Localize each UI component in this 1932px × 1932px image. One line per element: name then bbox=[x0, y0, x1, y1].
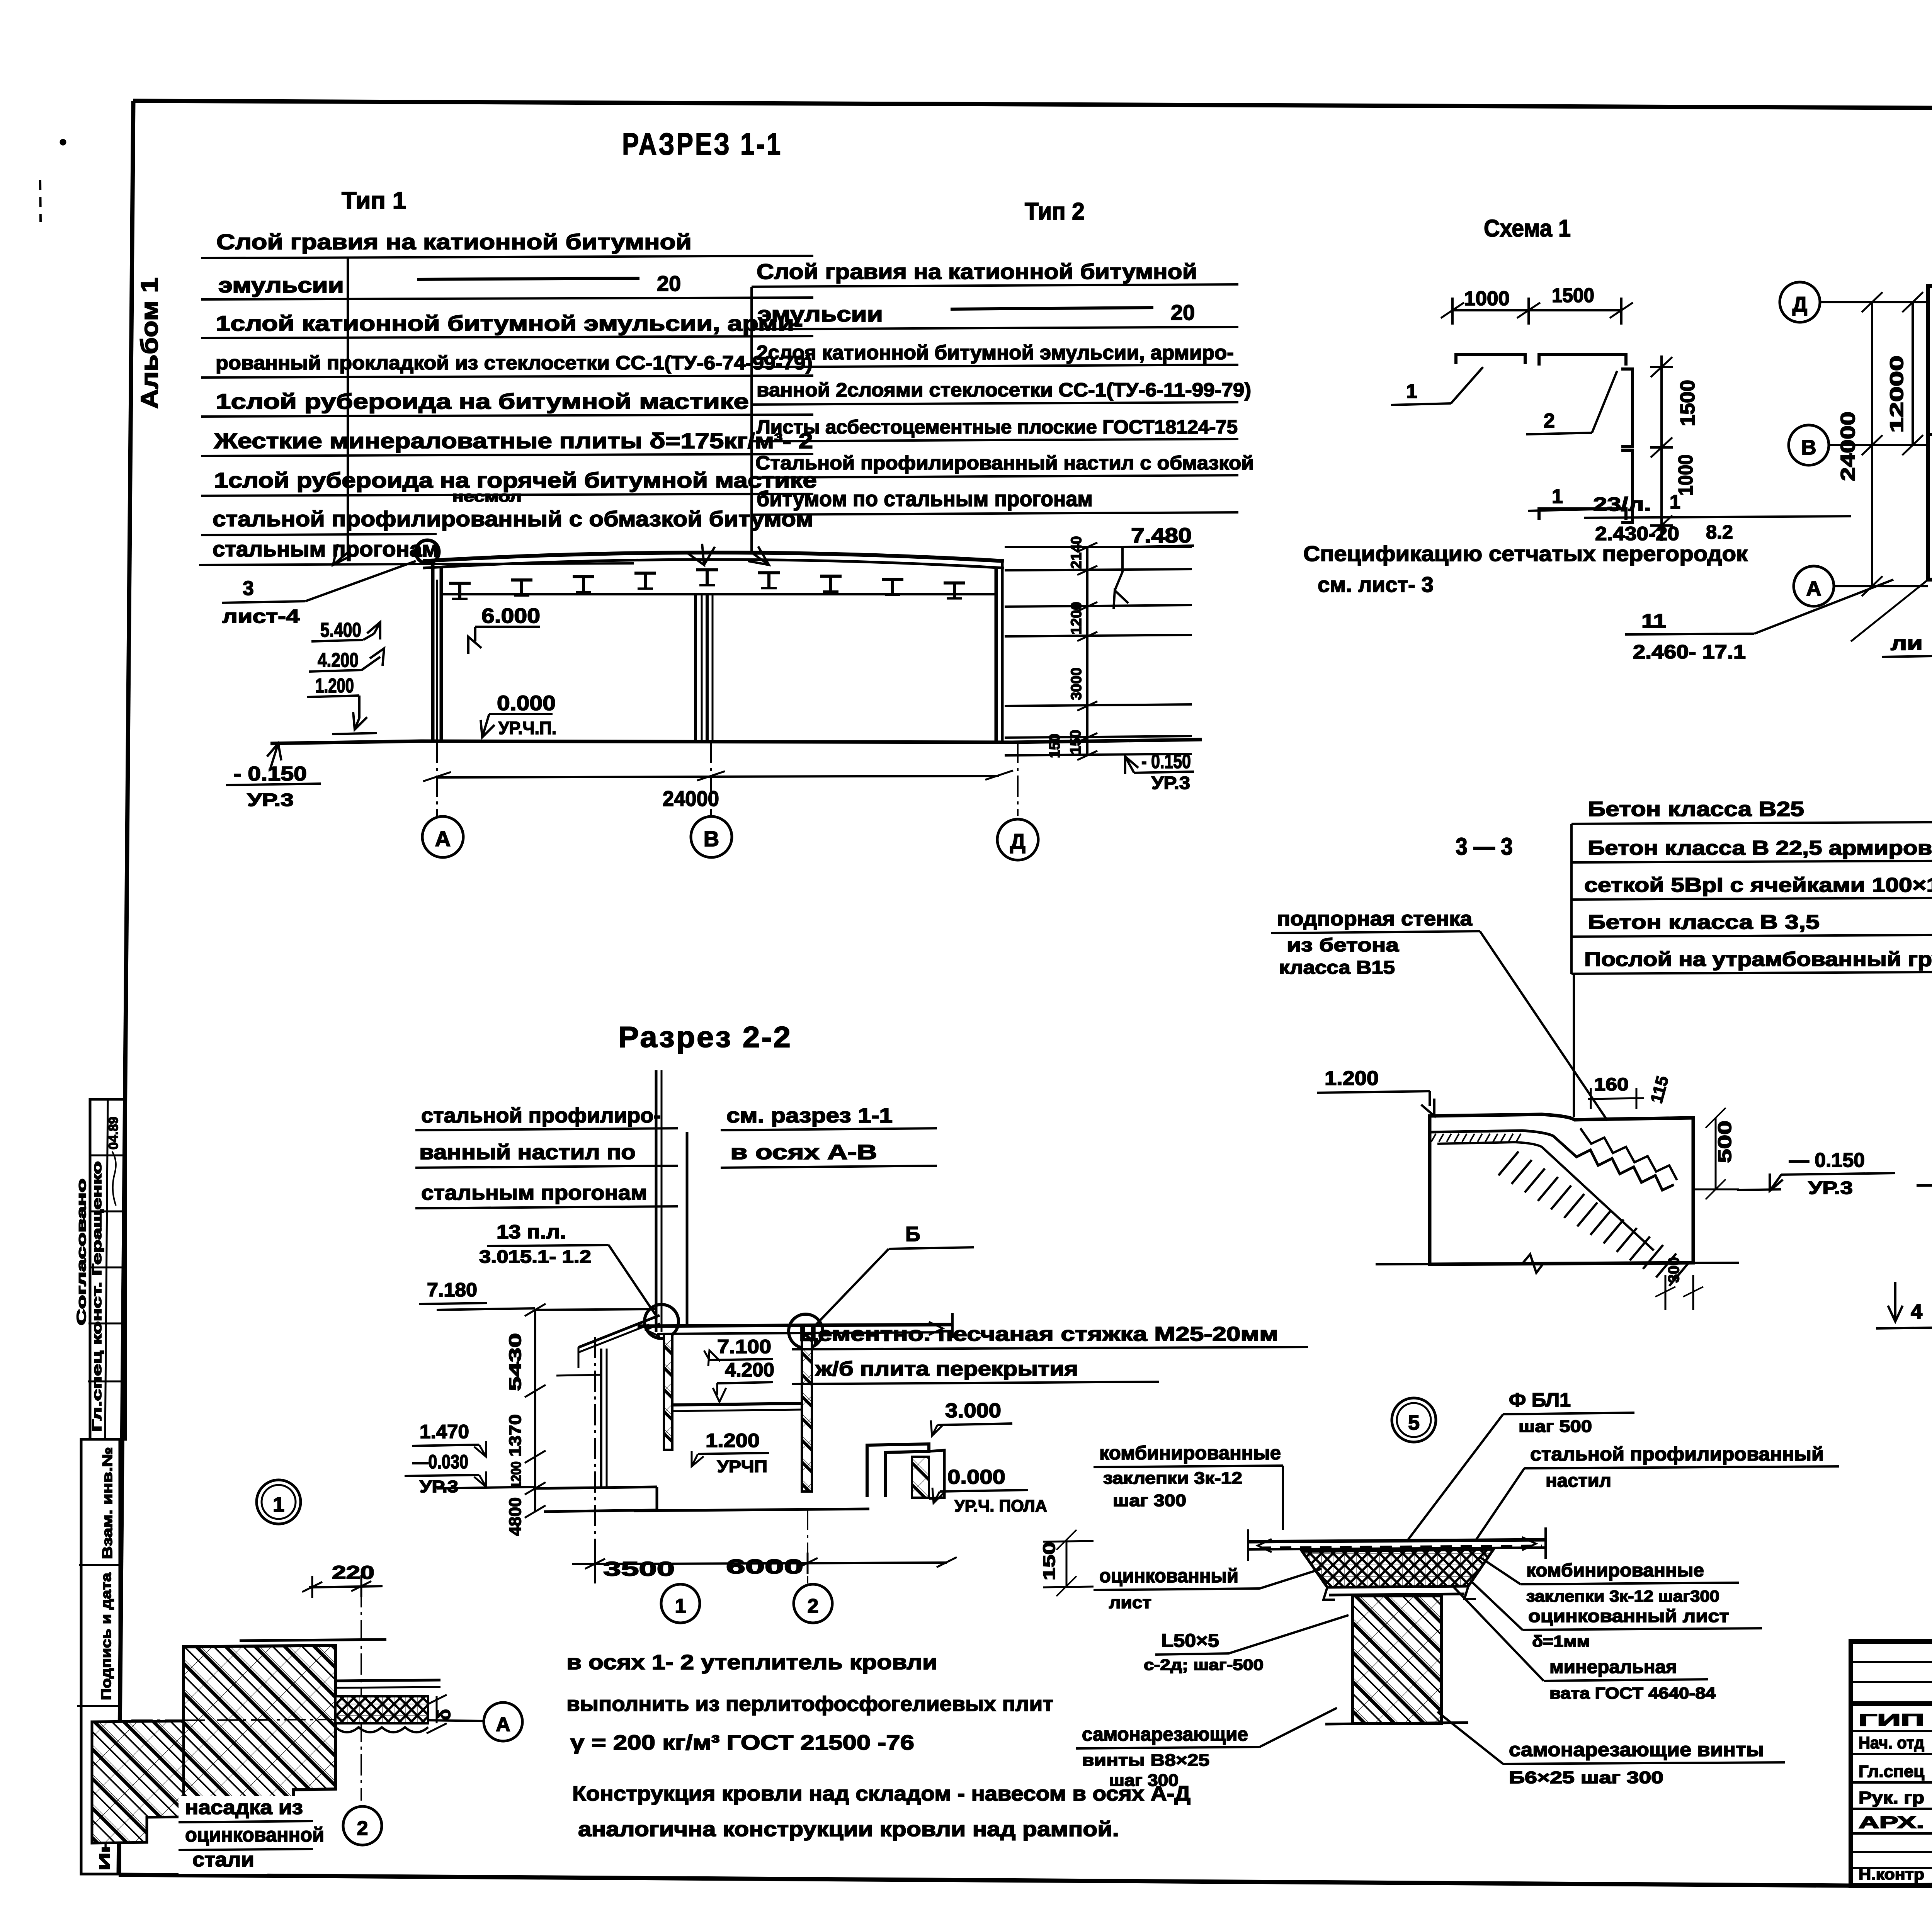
svg-text:12000: 12000 bbox=[1887, 355, 1907, 433]
svg-text:220: 220 bbox=[332, 1563, 374, 1583]
svg-text:см. разрез 1-1: см. разрез 1-1 bbox=[726, 1104, 893, 1127]
svg-text:лист-4: лист-4 bbox=[222, 605, 299, 627]
title block row ГИП bbox=[1851, 1704, 1932, 1706]
svg-text:1000: 1000 bbox=[1675, 454, 1697, 496]
svg-text:Ф БЛ1: Ф БЛ1 bbox=[1509, 1389, 1571, 1411]
section 1-1 left wall bbox=[431, 561, 435, 742]
svg-text:23/л.: 23/л. bbox=[1593, 493, 1651, 515]
svg-text:7.100: 7.100 bbox=[717, 1336, 771, 1357]
план vertical dim 24000 bbox=[1871, 302, 1873, 586]
title block row blank bbox=[1851, 1832, 1932, 1835]
svg-text:2: 2 bbox=[357, 1817, 368, 1840]
svg-text:самонарезающие: самонарезающие bbox=[1082, 1723, 1248, 1745]
svg-text:1: 1 bbox=[1406, 380, 1417, 403]
svg-text:В: В bbox=[1801, 436, 1816, 459]
2-2 tall mast vertical lines bbox=[655, 1070, 658, 1332]
detail mark 5 double circle bbox=[1392, 1398, 1436, 1442]
3-3 second step zigzag bbox=[1580, 1128, 1677, 1180]
svg-text:1500: 1500 bbox=[1552, 284, 1594, 307]
план axis circle Д bbox=[1780, 282, 1820, 322]
svg-text:выполнить из перлитофосфогели: выполнить из перлитофосфогелиевых плит bbox=[566, 1692, 1053, 1716]
svg-text:стальным прогонам: стальным прогонам bbox=[421, 1181, 647, 1204]
2-2 dim chain far left bbox=[534, 1310, 536, 1512]
Тип2 leader arrows to roof bbox=[752, 553, 769, 565]
detail5 capital edge angles bbox=[1323, 1587, 1335, 1600]
svg-text:1.200: 1.200 bbox=[706, 1430, 760, 1451]
svg-text:Рук. гр: Рук. гр bbox=[1859, 1788, 1924, 1807]
svg-text:Б: Б bbox=[905, 1223, 920, 1246]
svg-text:стальным прогонам: стальным прогонам bbox=[213, 537, 439, 561]
detail1 top slab line bbox=[240, 1639, 386, 1641]
svg-text:в осях 1- 2 утеплитель кр: в осях 1- 2 утеплитель кровли bbox=[566, 1651, 937, 1674]
2-2 axis circle 2 bbox=[794, 1584, 832, 1623]
3-3 step hatching marks top bbox=[1431, 1134, 1436, 1142]
svg-text:Согласовано: Согласовано bbox=[74, 1179, 88, 1325]
svg-text:Нач. отд: Нач. отд bbox=[1859, 1733, 1924, 1752]
title block row Н.контр bbox=[1851, 1867, 1932, 1869]
svg-text:6.000: 6.000 bbox=[481, 604, 540, 628]
section 1-1 right wall bbox=[995, 568, 998, 742]
svg-text:Б6×25 шаг 300: Б6×25 шаг 300 bbox=[1509, 1768, 1663, 1787]
svg-text:— 0.150: — 0.150 bbox=[1789, 1149, 1865, 1172]
svg-text:УРЧП: УРЧП bbox=[717, 1457, 767, 1476]
detail mark 1 double circle bbox=[257, 1480, 301, 1524]
svg-text:γ = 200 кг/м³ ГОСТ 21500 -: γ = 200 кг/м³ ГОСТ 21500 -76 bbox=[570, 1731, 914, 1754]
svg-text:УР.3: УР.3 bbox=[247, 790, 294, 810]
detail1 dim 8 right bbox=[436, 1696, 438, 1723]
svg-text:класса В15: класса В15 bbox=[1279, 957, 1395, 978]
roof plan mid horizontal bbox=[1928, 433, 1932, 436]
3-3 break line bottom bbox=[1376, 1254, 1739, 1273]
svg-text:стальной профилиро-: стальной профилиро- bbox=[421, 1104, 661, 1127]
svg-text:4.200: 4.200 bbox=[318, 649, 359, 672]
svg-text:битумом по стальным прогон: битумом по стальным прогонам bbox=[757, 486, 1093, 511]
svg-text:2.460- 17.1: 2.460- 17.1 bbox=[1633, 641, 1746, 663]
axis circle А bbox=[422, 816, 463, 857]
svg-text:РАЗРЕЗ 1-1: РАЗРЕЗ 1-1 bbox=[622, 127, 782, 161]
section 1-1 roof purlins (T marks) bbox=[449, 583, 471, 599]
section 1-1 roof slab bbox=[423, 553, 1004, 561]
svg-text:аналогична конструкции кров: аналогична конструкции кровли над рампой… bbox=[578, 1818, 1119, 1841]
svg-text:ванный настил по: ванный настил по bbox=[419, 1141, 636, 1164]
detail5 dim 150 left bbox=[1066, 1540, 1068, 1586]
svg-text:7.480: 7.480 bbox=[1131, 524, 1192, 547]
svg-text:лист: лист bbox=[1109, 1593, 1151, 1612]
svg-text:13 п.л.: 13 п.л. bbox=[497, 1221, 566, 1243]
svg-text:4800: 4800 bbox=[506, 1497, 525, 1536]
title block row Нач. отд bbox=[1851, 1730, 1932, 1732]
2-2 bottom dim 3500 / 6000 bbox=[572, 1563, 947, 1564]
svg-text:5430: 5430 bbox=[506, 1333, 525, 1391]
svg-text:2: 2 bbox=[808, 1595, 819, 1617]
svg-text:L50×5: L50×5 bbox=[1161, 1631, 1219, 1651]
svg-text:Схема 1: Схема 1 bbox=[1484, 215, 1571, 242]
2-2 left thin column bbox=[600, 1349, 602, 1488]
svg-text:- 0.150: - 0.150 bbox=[1141, 750, 1191, 773]
svg-text:Спецификацию сетчатых перег: Спецификацию сетчатых перегородок bbox=[1303, 541, 1748, 566]
sheet frame top border bbox=[133, 101, 1932, 111]
2-2 deck end ticks bbox=[951, 1313, 954, 1338]
svg-text:Бетон класса В25: Бетон класса В25 bbox=[1588, 798, 1804, 821]
svg-text:Разрез 2-2: Разрез 2-2 bbox=[618, 1021, 792, 1054]
svg-text:УР.3: УР.3 bbox=[1151, 773, 1190, 793]
svg-text:эмульсии: эмульсии bbox=[757, 302, 883, 326]
dim line 24000 bbox=[437, 776, 999, 777]
svg-text:А: А bbox=[496, 1713, 510, 1736]
svg-text:см. лист- 3: см. лист- 3 bbox=[1318, 572, 1434, 597]
svg-text:4.200: 4.200 bbox=[725, 1359, 774, 1381]
svg-text:20: 20 bbox=[1171, 300, 1195, 325]
detail1 axis circle 2 below bbox=[343, 1806, 382, 1845]
svg-text:1.200: 1.200 bbox=[315, 675, 354, 697]
svg-text:эмульсии: эмульсии bbox=[218, 273, 344, 297]
svg-text:24000: 24000 bbox=[1837, 412, 1859, 481]
svg-text:Гл.спец конст. Геращенко: Гл.спец конст. Геращенко bbox=[90, 1161, 104, 1432]
svg-text:0.000: 0.000 bbox=[947, 1466, 1005, 1488]
svg-text:рованный прокладкой из стекл: рованный прокладкой из стеклосетки СС-1(… bbox=[216, 352, 813, 374]
svg-text:1: 1 bbox=[1552, 485, 1563, 508]
svg-text:3.015.1- 1.2: 3.015.1- 1.2 bbox=[479, 1247, 591, 1267]
svg-text:—0.030: —0.030 bbox=[412, 1451, 468, 1473]
svg-text:А: А bbox=[1806, 577, 1821, 600]
2-2 rampa beam hatch bbox=[912, 1457, 929, 1498]
svg-text:В: В bbox=[704, 827, 719, 851]
axis circle В bbox=[691, 816, 732, 857]
label насадка из оцинкованной стали (white underlay) bbox=[179, 1796, 314, 1824]
svg-text:ли: ли bbox=[1891, 632, 1923, 655]
detail5 deck end ticks bbox=[1247, 1529, 1249, 1561]
svg-text:04.89: 04.89 bbox=[106, 1117, 121, 1150]
title block row Гл.спец bbox=[1851, 1753, 1932, 1755]
svg-text:подпорная стенка: подпорная стенка bbox=[1277, 908, 1473, 930]
svg-text:150: 150 bbox=[1040, 1542, 1059, 1580]
svg-text:Альбом 1: Альбом 1 bbox=[136, 277, 163, 409]
svg-text:ГИП: ГИП bbox=[1859, 1711, 1924, 1730]
roof plan outer rectangle bbox=[1928, 286, 1932, 580]
svg-text:300: 300 bbox=[1665, 1257, 1682, 1283]
svg-text:3.000: 3.000 bbox=[945, 1400, 1001, 1422]
svg-text:1500: 1500 bbox=[1677, 380, 1699, 426]
svg-text:150: 150 bbox=[1047, 734, 1063, 758]
detail5 column base line bbox=[1325, 1723, 1468, 1724]
right vertical dim line bbox=[1086, 547, 1088, 755]
detail1 centerline bbox=[361, 1586, 362, 1801]
svg-text:Подпись и дата: Подпись и дата bbox=[98, 1572, 114, 1700]
svg-text:стали: стали bbox=[192, 1849, 254, 1871]
leader from ли box to plan corner bbox=[1851, 580, 1928, 641]
3-3 wall inner steps bbox=[1430, 1131, 1674, 1190]
схема1 bottom channel bracket bbox=[1539, 509, 1626, 520]
svg-text:Конструкция кровли над скл: Конструкция кровли над складом - навесом… bbox=[572, 1782, 1190, 1805]
2-2 ground steps left bbox=[533, 1487, 657, 1488]
svg-text:заклепки 3к-12 шаг300: заклепки 3к-12 шаг300 bbox=[1526, 1587, 1719, 1605]
3-3 dim 500 right bbox=[1715, 1118, 1717, 1189]
svg-text:6000: 6000 bbox=[726, 1556, 803, 1578]
svg-text:заклепки 3к-12: заклепки 3к-12 bbox=[1103, 1469, 1242, 1488]
svg-text:Цементно. песчаная стяжка М2: Цементно. песчаная стяжка М25-20мм bbox=[799, 1323, 1278, 1345]
svg-text:11: 11 bbox=[1641, 610, 1666, 632]
2-2 left hatched column bbox=[664, 1334, 672, 1450]
svg-text:оцинкованный лист: оцинкованный лист bbox=[1528, 1606, 1729, 1626]
Тип1 leader bracket vertical bbox=[347, 258, 349, 553]
axis dashdot below section bbox=[436, 742, 438, 816]
svg-text:А: А bbox=[435, 827, 451, 851]
svg-text:Бетон класса В 22,5 арм: Бетон класса В 22,5 армированный bbox=[1588, 837, 1932, 859]
title block row Рук. гр bbox=[1851, 1781, 1932, 1784]
section 1-1 ceiling line bbox=[441, 593, 996, 595]
detail5 cross-hatched capital bbox=[1302, 1549, 1493, 1587]
svg-text:оцинкованный: оцинкованный bbox=[1099, 1565, 1238, 1587]
svg-text:150: 150 bbox=[1068, 730, 1084, 754]
svg-text:5: 5 bbox=[1408, 1411, 1420, 1434]
svg-text:Тип 1: Тип 1 bbox=[342, 187, 406, 214]
svg-text:3 — 3: 3 — 3 bbox=[1456, 833, 1513, 860]
svg-text:вата ГОСТ 4640-84: вата ГОСТ 4640-84 bbox=[1549, 1684, 1716, 1702]
svg-text:самонарезающие винты: самонарезающие винты bbox=[1509, 1739, 1764, 1760]
svg-text:2.430-20: 2.430-20 bbox=[1595, 523, 1679, 544]
svg-text:АРХ.: АРХ. bbox=[1859, 1813, 1924, 1832]
2-2 door frame lines bbox=[578, 1347, 580, 1368]
left stamp strip outer box upper (two columns) bbox=[90, 1099, 126, 1439]
svg-text:4: 4 bbox=[1911, 1300, 1922, 1323]
detail5 deck top line bbox=[1248, 1540, 1546, 1542]
title block row АРХ. bbox=[1851, 1808, 1932, 1810]
axis circle Д bbox=[997, 819, 1038, 860]
3-3 spec left border + leader down bbox=[1570, 824, 1573, 974]
svg-text:Послой на утрамбованный г: Послой на утрамбованный грунт bbox=[1584, 948, 1932, 971]
svg-text:в осях А-В: в осях А-В bbox=[730, 1141, 877, 1164]
svg-text:1370: 1370 bbox=[506, 1414, 525, 1457]
sheet frame left border bbox=[119, 101, 133, 1875]
svg-text:Слой гравия на катионной: Слой гравия на катионной битумной bbox=[757, 259, 1197, 284]
svg-text:δ=1мм: δ=1мм bbox=[1532, 1632, 1590, 1650]
2-2 axis circle 1 bbox=[661, 1584, 700, 1623]
section 1-1 gutter circle left bbox=[416, 540, 439, 563]
svg-text:2140: 2140 bbox=[1068, 536, 1085, 569]
Тип1 leader arrow to roof bbox=[333, 553, 348, 565]
svg-text:Бетон класса В 3,5: Бетон класса В 3,5 bbox=[1588, 911, 1820, 934]
detail1 axis circle Я bbox=[484, 1702, 522, 1741]
svg-text:2слоя катионной битумной эм: 2слоя катионной битумной эмульсии, армир… bbox=[757, 342, 1234, 364]
stamp box Подпись и дата bbox=[77, 1705, 119, 1707]
svg-text:1000: 1000 bbox=[1464, 287, 1510, 310]
2-2 foundation block below bbox=[634, 1509, 869, 1511]
2-2 rampa edge beam right bbox=[867, 1444, 929, 1497]
svg-text:1.470: 1.470 bbox=[420, 1421, 469, 1442]
svg-text:115: 115 bbox=[1647, 1074, 1672, 1105]
2-2 right hatched column bbox=[802, 1334, 812, 1492]
svg-text:из бетона: из бетона bbox=[1287, 935, 1399, 956]
схема1 vertical channel column bbox=[1621, 369, 1633, 446]
svg-text:оцинкованной: оцинкованной bbox=[185, 1824, 324, 1846]
схема1 channel bracket top-right bbox=[1539, 355, 1626, 366]
svg-text:1: 1 bbox=[273, 1493, 284, 1516]
3-3 retaining wall drawing bbox=[1430, 1114, 1693, 1264]
svg-text:500: 500 bbox=[1715, 1121, 1735, 1163]
title block thin top rows bbox=[1851, 1661, 1932, 1663]
2-2 middle floor line bbox=[672, 1403, 802, 1405]
svg-text:комбинированные: комбинированные bbox=[1526, 1560, 1704, 1581]
detail1 insulation strip bbox=[335, 1696, 428, 1723]
svg-text:Тип 2: Тип 2 bbox=[1025, 198, 1085, 225]
svg-text:8.2: 8.2 bbox=[1706, 521, 1733, 543]
svg-text:винты В8×25: винты В8×25 bbox=[1082, 1751, 1209, 1770]
svg-text:0.000: 0.000 bbox=[497, 692, 556, 715]
svg-text:1слой катионной битумной эм: 1слой катионной битумной эмульсии, арми- bbox=[216, 311, 803, 335]
stamp box Взам. инв. № bbox=[79, 1564, 120, 1566]
svg-text:шаг 500: шаг 500 bbox=[1519, 1417, 1592, 1436]
small dot top-left bbox=[60, 139, 66, 145]
svg-text:Жесткие минераловатные плиты: Жесткие минераловатные плиты δ=175кг/м³-… bbox=[214, 429, 813, 453]
svg-text:с-2д; шаг-500: с-2д; шаг-500 bbox=[1144, 1656, 1264, 1673]
svg-text:УР.Ч.П.: УР.Ч.П. bbox=[498, 718, 556, 738]
5-5 wall top line bbox=[1917, 1184, 1932, 1185]
detail1 hatched wall corner bbox=[184, 1645, 335, 1817]
stamp strip signature squiggle bbox=[112, 1151, 116, 1206]
svg-text:УР.3: УР.3 bbox=[1808, 1178, 1853, 1198]
схема1 right vertical dim bbox=[1660, 355, 1663, 541]
title block row blank bbox=[1851, 1851, 1932, 1853]
detail1 lower-left hatched block bbox=[92, 1721, 184, 1843]
svg-text:3: 3 bbox=[243, 577, 254, 600]
2-2 node circle left bbox=[645, 1304, 679, 1338]
svg-text:несмол: несмол bbox=[452, 489, 522, 505]
svg-text:20: 20 bbox=[657, 271, 681, 296]
stamp strip lower group box bbox=[81, 1439, 120, 1874]
stamp strip row lines upper bbox=[90, 1155, 125, 1156]
svg-text:160: 160 bbox=[1594, 1074, 1629, 1094]
2-2 node circle right bbox=[789, 1314, 823, 1348]
план axis circle В bbox=[1789, 425, 1829, 465]
svg-text:Листы асбестоцементные плоск: Листы асбестоцементные плоские ГОСТ18124… bbox=[757, 416, 1238, 438]
Тип2 leader bracket vertical bbox=[750, 287, 753, 553]
title block outline bbox=[1851, 1641, 1932, 1886]
svg-text:Д: Д bbox=[1010, 829, 1026, 854]
right elevation ladder lines bbox=[1005, 546, 1192, 548]
3-3 hatch on slope bbox=[1498, 1151, 1519, 1175]
svg-text:стальной профилированный: стальной профилированный bbox=[1530, 1443, 1824, 1465]
svg-text:2: 2 bbox=[1544, 410, 1555, 432]
svg-text:комбинированные: комбинированные bbox=[1099, 1442, 1281, 1464]
2-2 roof deck line bbox=[638, 1325, 952, 1326]
5-5 section arrows 4 bbox=[1894, 1282, 1896, 1321]
svg-text:1слой рубероида на битумной: 1слой рубероида на битумной мастике bbox=[216, 389, 749, 413]
svg-text:5.400: 5.400 bbox=[320, 619, 361, 641]
схема1 channel bracket top-left bbox=[1456, 354, 1525, 364]
svg-text:сеткой 5ВрI с ячейками 1: сеткой 5ВрI с ячейками 100×100 bbox=[1584, 874, 1932, 896]
section 1-1 ground line bbox=[270, 740, 1202, 743]
svg-text:стальной профилированный с об: стальной профилированный с обмазкой биту… bbox=[213, 507, 813, 531]
схема1 top dim line bbox=[1452, 309, 1621, 311]
svg-text:ж/б плита перекрытия: ж/б плита перекрытия bbox=[815, 1358, 1078, 1380]
detail1 deck lines right bbox=[335, 1680, 440, 1681]
svg-text:Д: Д bbox=[1793, 293, 1807, 316]
svg-text:минеральная: минеральная bbox=[1549, 1657, 1677, 1677]
svg-text:ванной 2слоями стеклосетки: ванной 2слоями стеклосетки СС-1(ТУ-6-11-… bbox=[757, 379, 1251, 401]
sheet frame bottom border bbox=[119, 1875, 1851, 1886]
svg-text:УР.3: УР.3 bbox=[420, 1477, 458, 1496]
svg-text:7.180: 7.180 bbox=[427, 1279, 477, 1301]
svg-text:Слой гравия на катионной б: Слой гравия на катионной битумной bbox=[216, 230, 692, 254]
план vertical dim 12000 bbox=[1912, 302, 1914, 445]
svg-text:3000: 3000 bbox=[1068, 667, 1085, 700]
svg-text:Взам. инв.№: Взам. инв.№ bbox=[99, 1447, 115, 1559]
svg-text:1200: 1200 bbox=[1068, 602, 1085, 634]
svg-text:1200: 1200 bbox=[508, 1461, 524, 1488]
section 1-1 middle column bbox=[694, 594, 697, 742]
svg-text:настил: настил bbox=[1546, 1471, 1611, 1491]
план axis circle А bbox=[1794, 566, 1834, 606]
svg-text:Н.контр: Н.контр bbox=[1859, 1866, 1924, 1883]
svg-text:шаг 300: шаг 300 bbox=[1113, 1491, 1186, 1510]
dashed registration mark top-left bbox=[40, 180, 41, 222]
svg-text:насадка из: насадка из bbox=[185, 1796, 303, 1819]
2-2 axis dashdot 1 and 2 bbox=[594, 1337, 596, 1583]
svg-text:Гл.спец: Гл.спец bbox=[1859, 1762, 1924, 1781]
svg-text:Стальной профилированный наст: Стальной профилированный настил с обмазк… bbox=[755, 452, 1254, 474]
svg-text:УР.Ч. ПОЛА: УР.Ч. ПОЛА bbox=[954, 1497, 1047, 1515]
svg-text:1: 1 bbox=[675, 1595, 686, 1617]
svg-text:3500: 3500 bbox=[603, 1558, 675, 1580]
detail5 hatched column bbox=[1352, 1596, 1441, 1723]
svg-text:δ: δ bbox=[434, 1709, 454, 1720]
2-2 inclined strut left bbox=[578, 1315, 660, 1347]
svg-text:1: 1 bbox=[1670, 491, 1680, 513]
svg-text:1.200: 1.200 bbox=[1325, 1067, 1379, 1090]
